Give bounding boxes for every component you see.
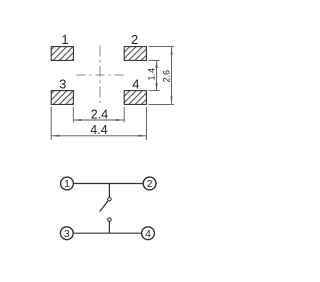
extension line pad4 inner	[123, 107, 125, 123]
centerline vertical (dash-dot)	[99, 46, 101, 104]
svg-text:4: 4	[145, 229, 151, 240]
schematic pin circle 2	[143, 177, 156, 190]
svg-text:2.6: 2.6	[162, 70, 172, 83]
dimension line 4.4 (horizontal)	[51, 135, 146, 137]
dimension line 2.6 (vertical)	[171, 47, 173, 105]
svg-text:1.4: 1.4	[147, 68, 157, 81]
wire stub bottom (from switch contact)	[108, 222, 110, 234]
extension line pad4 top	[149, 90, 160, 92]
extension line pad4 bottom	[149, 103, 175, 105]
extension line pad4 outer	[145, 107, 147, 140]
svg-text:3: 3	[64, 229, 70, 240]
extension line pad3 outer	[50, 107, 52, 140]
svg-text:1: 1	[61, 32, 68, 47]
wire bottom (pin3 to pin4)	[73, 232, 141, 234]
switch arm (open)	[100, 201, 109, 212]
wire stub top (to switch contact)	[108, 184, 110, 198]
wire top (pin1 to pin2)	[73, 183, 143, 185]
switch contact bottom (small circle)	[108, 218, 112, 222]
schematic pin circle 3	[60, 227, 73, 240]
svg-text:3: 3	[59, 76, 66, 91]
extension line pad3 inner	[72, 107, 74, 123]
dimension line 1.4 (vertical)	[155, 60, 157, 90]
extension line pad2 bottom	[149, 59, 160, 61]
svg-text:1: 1	[64, 179, 70, 190]
pad 2 (top-right, hatched)	[124, 47, 146, 61]
pad 1 (top-left, hatched)	[51, 47, 73, 61]
svg-text:4.4: 4.4	[90, 123, 107, 137]
pad 3 (bottom-left, hatched)	[51, 91, 73, 105]
svg-text:2: 2	[131, 32, 138, 47]
switch contact top (small circle)	[108, 197, 112, 201]
pad 4 (bottom-right, hatched)	[124, 91, 146, 105]
extension line pad2 top	[149, 46, 175, 48]
svg-text:4: 4	[132, 76, 139, 91]
centerline horizontal (dash-dot)	[77, 74, 124, 76]
svg-text:2: 2	[147, 179, 153, 190]
svg-text:2.4: 2.4	[91, 108, 108, 122]
dimension line 2.4 (horizontal)	[73, 119, 124, 121]
schematic pin circle 4	[142, 227, 155, 240]
schematic pin circle 1	[61, 177, 74, 190]
